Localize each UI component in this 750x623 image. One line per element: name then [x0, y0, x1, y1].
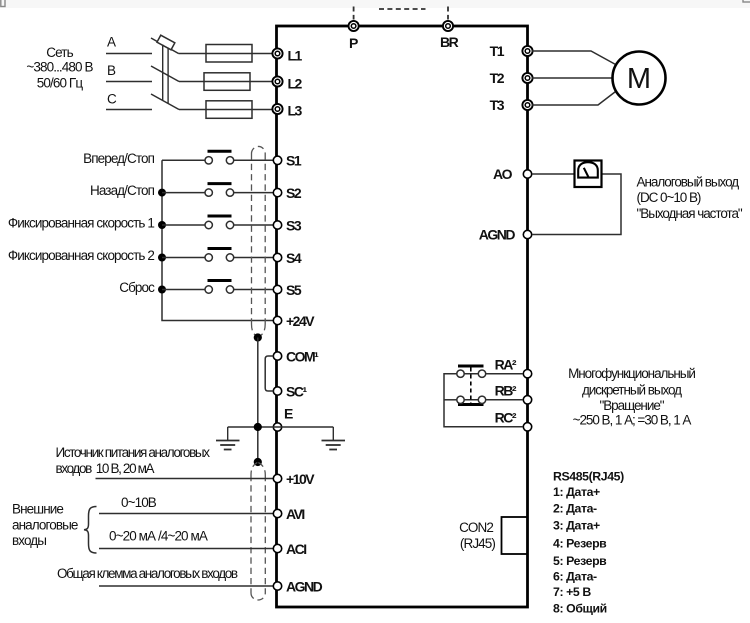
svg-text:Сеть: Сеть — [46, 45, 73, 60]
ground symbol left — [216, 427, 240, 450]
svg-text:RB²: RB² — [495, 383, 517, 399]
svg-text:(RJ45): (RJ45) — [460, 536, 496, 551]
shield drain wire — [257, 338, 259, 463]
digital input bus wire — [162, 160, 273, 320]
svg-text:Вперед/Стоп: Вперед/Стоп — [83, 151, 154, 166]
terminal AO — [493, 166, 532, 182]
brace external analog inputs — [84, 507, 97, 554]
relay mechanical link — [470, 368, 472, 404]
svg-text:AGND: AGND — [479, 227, 516, 243]
terminal COM1 — [273, 348, 319, 364]
node dot drain/E junction — [254, 423, 262, 431]
svg-text:COM¹: COM¹ — [286, 348, 319, 364]
wire T1 to motor — [532, 51, 616, 65]
motor M — [613, 52, 666, 105]
wire AVI — [99, 513, 273, 515]
svg-text:L3: L3 — [288, 103, 303, 119]
svg-text:C: C — [107, 92, 117, 107]
svg-text:ACI: ACI — [286, 541, 306, 557]
terminal S1 — [273, 153, 302, 169]
analog meter (frequency indicator) — [575, 161, 602, 188]
wire meter loop to AGND — [532, 174, 621, 235]
terminal S3 — [273, 217, 302, 233]
wire ACI — [99, 548, 273, 550]
switch Сброс row S5 — [119, 280, 273, 295]
node dot S4 bus — [158, 254, 166, 262]
breaker blade pole B — [151, 66, 179, 82]
svg-text:5: Резерв: 5: Резерв — [553, 554, 607, 568]
fuse F2 — [204, 73, 250, 91]
wire A blade to fuse to L1 — [179, 53, 273, 55]
svg-text:~380...480 В: ~380...480 В — [26, 60, 93, 75]
svg-text:T1: T1 — [490, 43, 505, 59]
svg-text:+10V: +10V — [286, 471, 315, 487]
breaker blade pole C — [151, 94, 179, 110]
svg-text:0~20 мА /4~20 мА: 0~20 мА /4~20 мА — [109, 529, 208, 544]
fuse F3 — [206, 101, 252, 119]
svg-text:Внешние: Внешние — [12, 502, 63, 517]
svg-text:S2: S2 — [286, 185, 302, 201]
switch Фиксированная скорость 2 row S4 — [8, 248, 273, 263]
dashed brake resistor leads — [354, 7, 448, 20]
breaker mechanical tie bar — [163, 45, 168, 104]
supply label: Сеть ~380...480 В 50/60 Гц — [26, 45, 93, 91]
svg-text:4: Резерв: 4: Резерв — [553, 537, 607, 551]
terminal +10V — [273, 471, 315, 487]
svg-text:B: B — [107, 63, 116, 78]
switch Назад/Стоп row S2 — [90, 183, 273, 198]
terminal ACI — [273, 541, 306, 557]
svg-text:Многофункциональный: Многофункциональный — [568, 366, 695, 381]
svg-text:дискретный выход: дискретный выход — [582, 382, 682, 397]
jumper COM-SC — [265, 356, 273, 391]
svg-text:S3: S3 — [286, 217, 302, 233]
breaker blade pole A — [151, 38, 179, 54]
svg-text:AGND: AGND — [286, 578, 323, 594]
svg-text:Фиксированная скорость 2: Фиксированная скорость 2 — [8, 248, 155, 263]
svg-text:Сброс: Сброс — [119, 280, 155, 295]
fuse F1 — [206, 45, 252, 63]
svg-text:7: +5 В: 7: +5 В — [553, 585, 591, 599]
terminal AGND left — [273, 578, 322, 594]
terminal T3 — [490, 97, 533, 113]
node dot analog shield top — [254, 458, 262, 466]
svg-text:"Вращение": "Вращение" — [599, 398, 664, 413]
terminal S5 — [273, 282, 302, 298]
terminal RB2 — [495, 383, 532, 404]
svg-text:AVI: AVI — [286, 506, 304, 522]
terminal T2 — [490, 70, 533, 86]
terminal AVI — [273, 506, 304, 522]
terminal AGND right — [479, 227, 532, 243]
node dot S2 bus — [158, 189, 166, 197]
terminal +24V — [273, 313, 315, 329]
terminal P — [349, 21, 359, 51]
svg-text:S5: S5 — [286, 282, 302, 298]
node dot S5 bus — [158, 286, 166, 294]
svg-text:RS485(RJ45): RS485(RJ45) — [553, 469, 624, 483]
svg-text:входов 10 В, 20 мА: входов 10 В, 20 мА — [56, 461, 155, 476]
wire AGND left — [99, 585, 273, 587]
svg-text:S4: S4 — [286, 250, 302, 266]
wire RB to bus — [444, 399, 457, 401]
terminal T1 — [490, 43, 533, 59]
svg-text:Назад/Стоп: Назад/Стоп — [90, 183, 155, 198]
wire phase B stub — [106, 81, 152, 83]
label RS485 pinout — [553, 469, 624, 615]
wire B blade to fuse to L2 — [179, 81, 272, 83]
svg-text:S1: S1 — [286, 153, 302, 169]
svg-text:P: P — [349, 35, 358, 51]
wire AO to meter — [532, 173, 574, 175]
svg-text:6: Дата-: 6: Дата- — [553, 569, 597, 583]
terminal RA2 — [495, 357, 532, 378]
relay common wire — [444, 374, 523, 427]
svg-text:Общая клемма аналоговых входов: Общая клемма аналоговых входов — [57, 566, 238, 581]
svg-text:Фиксированная скорость 1: Фиксированная скорость 1 — [8, 216, 155, 231]
svg-text:+24V: +24V — [286, 313, 315, 329]
label Источник питания аналоговых входов — [56, 445, 211, 476]
svg-text:50/60 Гц: 50/60 Гц — [37, 76, 84, 91]
svg-text:Источник питания аналоговых: Источник питания аналоговых — [56, 445, 211, 460]
svg-text:AO: AO — [493, 166, 513, 182]
terminal L1 — [272, 47, 302, 63]
wire T2 to motor — [532, 77, 612, 79]
label Многофункциональный дискретный выход — [568, 366, 695, 428]
svg-text:аналоговые: аналоговые — [12, 518, 78, 533]
wire C blade to fuse to L3 — [179, 109, 272, 111]
svg-text:3: Дата+: 3: Дата+ — [553, 519, 600, 533]
svg-text:8: Общий: 8: Общий — [553, 601, 607, 615]
svg-text:T3: T3 — [490, 97, 505, 113]
svg-text:~250 В, 1 А; =30 В, 1 А: ~250 В, 1 А; =30 В, 1 А — [573, 413, 692, 428]
wire phase A stub — [106, 53, 152, 55]
svg-text:L2: L2 — [288, 75, 303, 91]
svg-text:RA²: RA² — [495, 357, 517, 373]
shield drain node — [254, 333, 262, 341]
connector CON2 (RJ45) — [459, 517, 527, 554]
ground symbol right — [322, 427, 346, 450]
svg-text:T2: T2 — [490, 70, 505, 86]
wire E to grounds — [228, 426, 334, 428]
switch Фиксированная скорость 1 row S3 — [8, 216, 273, 231]
svg-text:A: A — [107, 35, 116, 50]
node dot S3 bus — [158, 221, 166, 229]
svg-text:(DC 0~10 В): (DC 0~10 В) — [637, 190, 701, 205]
svg-text:M: M — [627, 63, 651, 95]
svg-text:0~10В: 0~10В — [121, 495, 157, 510]
VFD drive box U1 — [277, 26, 528, 607]
terminal S2 — [273, 185, 302, 201]
cable shield (digital inputs) — [252, 146, 266, 337]
terminal RC2 — [495, 410, 532, 431]
svg-text:SC¹: SC¹ — [286, 383, 307, 399]
cable shield (analog inputs) — [251, 463, 265, 600]
relay contact RA (NO) — [457, 366, 523, 377]
svg-text:2: Дата-: 2: Дата- — [553, 502, 597, 516]
svg-text:RC²: RC² — [495, 410, 517, 426]
relay contact RB (NC) — [457, 396, 523, 404]
terminal E — [273, 406, 293, 432]
svg-text:E: E — [284, 406, 293, 422]
label Внешние аналоговые входы — [12, 502, 78, 549]
terminal L3 — [272, 103, 302, 119]
terminal BR — [440, 21, 459, 50]
svg-text:1: Дата+: 1: Дата+ — [553, 485, 600, 499]
terminal SC1 — [273, 383, 307, 399]
label Аналоговый выход — [637, 174, 743, 221]
svg-text:входы: входы — [12, 533, 46, 548]
terminal S4 — [273, 250, 302, 266]
svg-text:CON2: CON2 — [459, 520, 493, 535]
svg-text:L1: L1 — [288, 47, 303, 63]
wire T3 to motor — [532, 92, 616, 106]
breaker element on blade A — [157, 35, 175, 50]
svg-text:"Выходная частота": "Выходная частота" — [637, 206, 743, 221]
terminal L2 — [272, 75, 302, 91]
wire +10V — [96, 478, 274, 480]
wire phase C stub — [106, 109, 152, 111]
svg-text:Аналоговый выход: Аналоговый выход — [637, 174, 740, 189]
svg-text:BR: BR — [440, 34, 459, 50]
switch Вперед/Стоп row S1 — [83, 151, 273, 166]
